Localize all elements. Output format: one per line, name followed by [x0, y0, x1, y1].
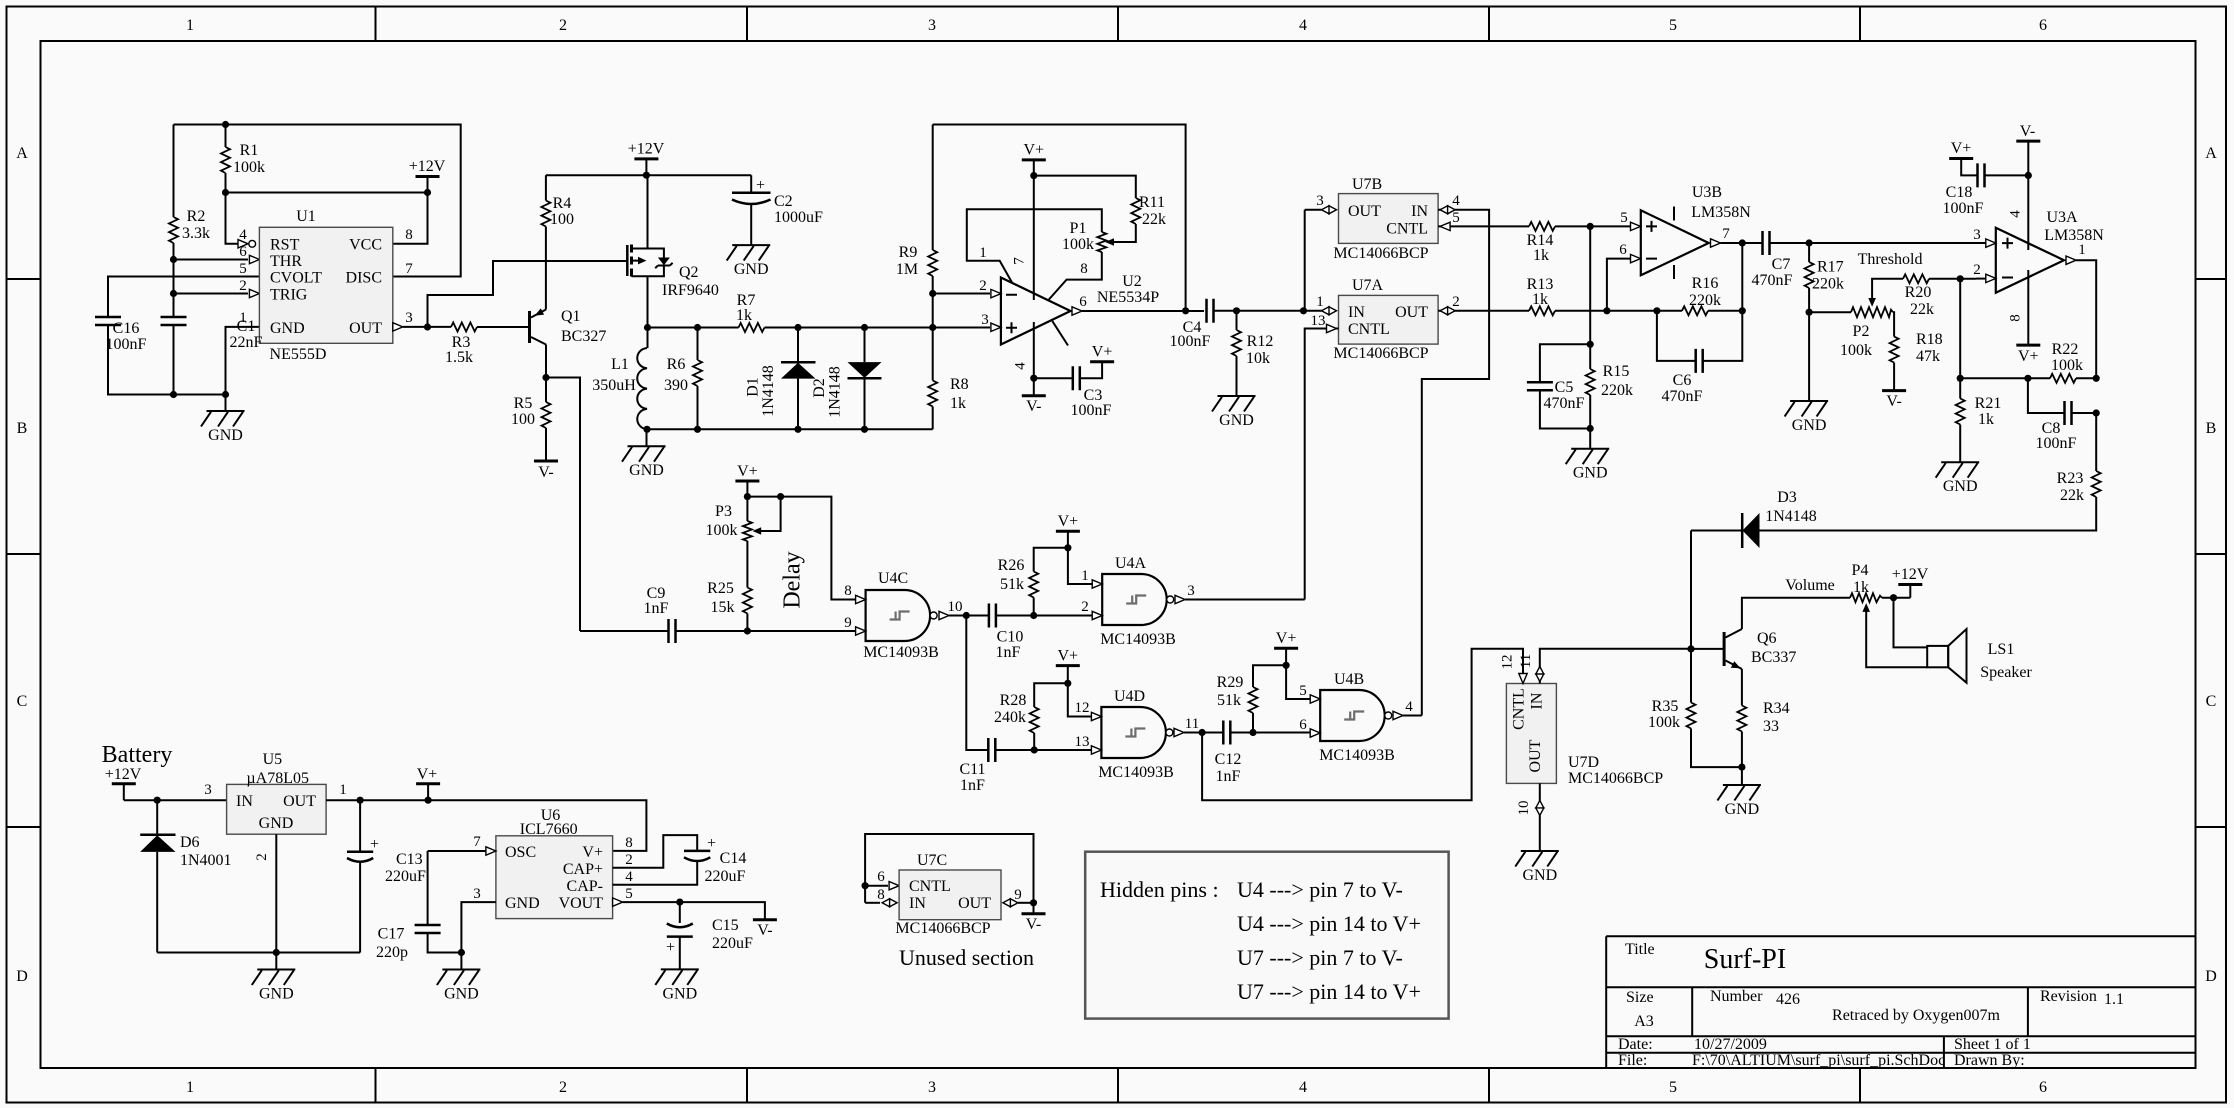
pin arrow U4D pin12	[1091, 712, 1101, 720]
svg-text:390: 390	[664, 377, 688, 394]
svg-text:Size: Size	[1626, 989, 1654, 1006]
svg-text:4: 4	[1013, 362, 1029, 370]
svg-text:2: 2	[625, 852, 633, 868]
svg-text:B: B	[2206, 420, 2217, 437]
svg-text:Threshold: Threshold	[1858, 251, 1923, 268]
svg-text:2: 2	[979, 278, 987, 294]
capacitor C18	[1961, 159, 1977, 176]
resistor R3	[451, 323, 477, 332]
node pin3 junction	[929, 324, 936, 331]
svg-text:ICL7660: ICL7660	[520, 821, 578, 838]
wire feedback top	[933, 125, 1186, 311]
svg-text:100k: 100k	[2051, 357, 2083, 374]
svg-text:1nF: 1nF	[960, 777, 985, 794]
svg-text:R5: R5	[514, 395, 533, 412]
svg-text:C13: C13	[396, 851, 423, 868]
svg-text:C15: C15	[712, 917, 739, 934]
pin arrows U7C pin9	[1003, 899, 1018, 907]
wire base to Q6	[1691, 648, 1724, 650]
svg-text:NE5534P: NE5534P	[1097, 289, 1159, 306]
resistor R11	[1131, 198, 1140, 224]
svg-text:5: 5	[239, 261, 247, 277]
svg-text:L1: L1	[611, 356, 629, 373]
svg-text:THR: THR	[270, 253, 302, 270]
wire U4D out	[1184, 732, 1223, 734]
svg-text:+12V: +12V	[628, 141, 665, 158]
node U6 gnd junction	[458, 949, 465, 956]
resistor R7	[739, 323, 765, 332]
wire RST pin 4	[226, 193, 239, 244]
svg-text:C11: C11	[959, 761, 985, 778]
resistor R26	[1029, 572, 1038, 598]
node R22 right junction	[2093, 375, 2100, 382]
node R25 bottom junction	[744, 627, 751, 634]
svg-text:220k: 220k	[1689, 292, 1721, 309]
node R17 bottom junction	[1806, 309, 1813, 316]
node L1 bottom junction	[643, 426, 650, 433]
row letters left	[16, 145, 28, 985]
wire pin2 line	[933, 293, 990, 295]
pin arrow U7B pin5	[1440, 222, 1450, 230]
node pin2 junction	[929, 290, 936, 297]
svg-text:5: 5	[1299, 683, 1307, 699]
capacitor C9	[580, 630, 669, 632]
wire pin8 to P1 bottom	[1048, 252, 1102, 301]
svg-text:R20: R20	[1905, 284, 1932, 301]
wire U7B out to node	[1304, 210, 1306, 311]
svg-text:VOUT: VOUT	[559, 895, 604, 912]
svg-text:V-: V-	[1026, 916, 1041, 933]
capacitor C12	[1223, 721, 1230, 745]
wire R17 to P2	[1809, 311, 1851, 313]
node rail junction	[643, 172, 650, 179]
resistor R28	[1030, 707, 1039, 733]
capacitor C5	[1540, 344, 1590, 382]
svg-text:DISC: DISC	[346, 270, 382, 287]
svg-text:MC14066BCP: MC14066BCP	[1568, 770, 1663, 787]
wire V+ to R11	[1034, 176, 1136, 198]
ruler ticks right	[2196, 279, 2227, 827]
ground GND (C15)	[655, 969, 699, 1002]
svg-text:3: 3	[1973, 227, 1981, 243]
svg-text:MC14066BCP: MC14066BCP	[1333, 245, 1428, 262]
pin arrow U3B pin6	[1631, 254, 1641, 262]
svg-text:2: 2	[1973, 262, 1981, 278]
svg-text:11: 11	[1185, 716, 1199, 732]
wire OUT up to Q2 gate	[428, 261, 628, 327]
op-amp U3B LM358N	[1641, 210, 1709, 275]
svg-text:OSC: OSC	[505, 844, 536, 861]
wire U7A pin13	[1305, 329, 1339, 600]
svg-text:V-: V-	[2020, 123, 2035, 140]
wire U5 out	[326, 800, 646, 851]
svg-text:OUT: OUT	[1348, 203, 1381, 220]
svg-text:100nF: 100nF	[1170, 333, 1211, 350]
node speaker junction	[1890, 594, 1897, 601]
svg-text:7: 7	[1722, 226, 1730, 242]
svg-text:U7B: U7B	[1352, 176, 1382, 193]
svg-text:C2: C2	[774, 193, 793, 210]
svg-text:V+: V+	[1058, 648, 1079, 665]
wire R2 top lead	[173, 125, 175, 218]
svg-text:470nF: 470nF	[1662, 388, 1703, 405]
op-amp U1 box NE555D	[259, 227, 392, 343]
capacitor C8	[2028, 378, 2065, 413]
svg-text:Date:: Date:	[1618, 1036, 1653, 1053]
power V+ (C18)	[1949, 158, 1973, 160]
svg-text:Q2: Q2	[679, 264, 699, 281]
svg-text:220k: 220k	[1601, 382, 1633, 399]
svg-text:1.1: 1.1	[2104, 991, 2124, 1008]
wire battery to U5	[124, 799, 227, 801]
svg-text:220k: 220k	[1812, 276, 1844, 293]
svg-text:MC14093B: MC14093B	[1319, 747, 1395, 764]
svg-text:1: 1	[239, 310, 247, 326]
svg-text:15k: 15k	[711, 599, 735, 616]
pin arrow U3A output	[2066, 256, 2076, 264]
row letters right	[2205, 145, 2217, 985]
svg-text:V-: V-	[538, 464, 553, 481]
node Q2 drain junction	[644, 324, 651, 331]
ground GND (R21)	[1936, 462, 1980, 495]
diode D2 1N4148	[864, 328, 866, 363]
svg-text:C5: C5	[1555, 379, 1574, 396]
wire OUT to R3	[403, 326, 451, 328]
pin arrow U6 pin7	[486, 847, 496, 855]
resistor R20	[1903, 274, 1929, 283]
capacitor C10	[989, 604, 996, 628]
wire rail to R4	[545, 175, 547, 200]
svg-text:6: 6	[1299, 717, 1307, 733]
resistor R23	[2095, 413, 2097, 471]
pin arrow U7A pin13	[1327, 324, 1337, 332]
svg-text:12: 12	[1500, 655, 1516, 670]
pin arrows U7B pin4	[1440, 206, 1455, 214]
resistor R18	[1890, 337, 1899, 363]
node R1 top junction	[222, 121, 229, 128]
svg-text:22k: 22k	[1910, 301, 1934, 318]
column numbers bottom	[186, 1079, 2047, 1096]
svg-text:MC14093B: MC14093B	[1100, 631, 1176, 648]
svg-text:5: 5	[1452, 210, 1460, 226]
power V+ (R28)	[1056, 665, 1080, 667]
svg-text:2: 2	[239, 278, 247, 294]
svg-text:9: 9	[1014, 887, 1022, 903]
node output junction	[1739, 239, 1746, 246]
svg-text:GND: GND	[270, 320, 305, 337]
capacitor C4	[1207, 299, 1214, 323]
note box hidden pins	[1085, 852, 1448, 1019]
wire U5 pin2	[275, 834, 277, 952]
svg-text:11: 11	[1518, 654, 1534, 668]
svg-text:CAP-: CAP-	[567, 878, 603, 895]
svg-text:V+: V+	[1951, 140, 1972, 157]
node V+ junction	[1283, 662, 1290, 669]
svg-text:1000uF: 1000uF	[774, 209, 823, 226]
pin arrow U3A pin2	[1986, 274, 1996, 282]
svg-text:Delay: Delay	[779, 551, 805, 608]
wire Q6 emitter to R34	[1741, 669, 1743, 706]
svg-text:U4A: U4A	[1115, 555, 1147, 572]
svg-text:LM358N: LM358N	[1691, 204, 1751, 221]
wire U7A pin2 line	[1438, 310, 1529, 312]
node R12 junction	[1233, 307, 1240, 314]
power V+ (U3A pin8)	[2016, 344, 2040, 346]
svg-text:V+: V+	[1092, 344, 1113, 361]
svg-text:CNTL: CNTL	[1511, 688, 1528, 730]
capacitor C15 electrolytic	[679, 902, 681, 923]
node THR junction	[170, 256, 177, 263]
pin 4 stub and V-	[1033, 322, 1035, 396]
node R14 bus junction	[1587, 223, 1594, 230]
wire output to R16	[1741, 243, 1743, 311]
node U4C out junction	[963, 612, 970, 619]
capacitor C2 electrolytic	[750, 175, 752, 193]
op-amp U3A LM358N	[1996, 228, 2064, 293]
svg-text:7: 7	[473, 834, 481, 850]
wire pin6 feedback	[1607, 259, 1630, 311]
svg-text:CVOLT: CVOLT	[270, 270, 322, 287]
svg-text:BC337: BC337	[1751, 649, 1796, 666]
node R28 bottom junction	[1031, 746, 1038, 753]
svg-text:R8: R8	[950, 376, 969, 393]
power V+ (R29)	[1274, 647, 1298, 649]
wire U7B pin4 to U4B output	[1422, 210, 1489, 716]
svg-text:Number: Number	[1710, 988, 1763, 1005]
svg-text:4: 4	[1299, 1079, 1307, 1096]
wire R14 bus down through R15 to ground	[1589, 226, 1591, 369]
svg-text:R17: R17	[1817, 259, 1844, 276]
svg-text:R25: R25	[707, 580, 734, 597]
svg-text:1N4001: 1N4001	[180, 852, 232, 869]
nand gate U4C MC14093B	[866, 590, 938, 641]
ground GND (L1)	[646, 429, 648, 446]
wire R4 to Q1 emitter	[545, 227, 547, 310]
svg-text:3: 3	[928, 1079, 936, 1096]
node V+ junction	[1064, 544, 1071, 551]
potentiometer P3	[743, 521, 752, 541]
node P3 top junction	[744, 493, 751, 500]
wire U7C loop	[865, 834, 1033, 914]
wire coil line	[648, 327, 739, 329]
svg-text:5: 5	[625, 886, 633, 902]
capacitor C6	[1657, 311, 1696, 361]
svg-text:TRIG: TRIG	[270, 287, 308, 304]
svg-text:1nF: 1nF	[1216, 768, 1241, 785]
node OUT branch junction	[424, 323, 431, 330]
svg-text:1: 1	[2078, 242, 2086, 258]
svg-text:4: 4	[1452, 193, 1460, 209]
resistor R4	[541, 201, 550, 227]
svg-text:Volume: Volume	[1785, 577, 1834, 594]
svg-text:6: 6	[1079, 294, 1087, 310]
transistor Q2 IRF9640	[626, 245, 629, 276]
svg-text:U7A: U7A	[1352, 277, 1384, 294]
svg-text:µA78L05: µA78L05	[246, 770, 309, 787]
svg-text:+: +	[707, 835, 716, 852]
wire feedback row	[1960, 377, 2050, 379]
ruler ticks left	[7, 279, 41, 827]
svg-text:1N4148: 1N4148	[1765, 508, 1817, 525]
node U4D out junction	[1199, 729, 1206, 736]
svg-text:GND: GND	[259, 815, 294, 832]
wire U6 pin7 OSC	[428, 850, 486, 852]
pin arrow U3A pin3	[1986, 239, 1996, 247]
node Q6 base junction	[1687, 645, 1694, 652]
svg-text:Unused section: Unused section	[899, 945, 1034, 970]
resistor R15	[1586, 369, 1595, 395]
svg-text:10k: 10k	[1246, 350, 1270, 367]
svg-text:U1: U1	[296, 208, 316, 225]
svg-text:1k: 1k	[1978, 411, 1994, 428]
wire C1 bottom	[173, 325, 175, 395]
svg-text:13: 13	[1311, 313, 1326, 329]
power V- (VOUT)	[753, 919, 777, 921]
svg-text:C14: C14	[720, 850, 747, 867]
svg-text:V+: V+	[1058, 513, 1079, 530]
svg-text:GND: GND	[505, 895, 540, 912]
pin arrows U7A pin2	[1440, 307, 1455, 315]
wire U3A output down	[2076, 260, 2096, 378]
ground GND (R17)	[1785, 401, 1829, 434]
svg-text:4: 4	[239, 227, 247, 243]
wire R17 to ground	[1808, 312, 1810, 401]
svg-text:33: 33	[1763, 718, 1779, 735]
node pin4 junction	[1030, 375, 1037, 382]
node V+ junction	[1030, 172, 1037, 179]
ground GND (C2)	[727, 245, 771, 278]
svg-text:350uH: 350uH	[592, 377, 636, 394]
ground GND (U6)	[460, 953, 462, 970]
node C13 junction	[357, 797, 364, 804]
svg-text:U2: U2	[1122, 273, 1142, 290]
svg-text:Revision: Revision	[2040, 988, 2097, 1005]
pin arrow U4B pin6	[1310, 729, 1320, 737]
wire U4A out to U7A pin13	[1185, 599, 1305, 601]
wire +12V rail	[546, 174, 751, 176]
svg-text:2: 2	[559, 1079, 567, 1096]
resistor R5	[545, 378, 547, 403]
resistor R1	[225, 125, 227, 148]
svg-text:R4: R4	[553, 195, 572, 212]
node V+ junction	[1064, 680, 1071, 687]
svg-text:V+: V+	[1276, 630, 1297, 647]
node collector junction	[542, 374, 549, 381]
pin arrow U3B pin5	[1631, 222, 1641, 230]
svg-text:+12V: +12V	[409, 158, 446, 175]
node +12V junction	[424, 189, 431, 196]
svg-text:B: B	[17, 420, 28, 437]
svg-text:1: 1	[186, 1079, 194, 1096]
node R15 bottom junction	[1587, 425, 1594, 432]
wire U3B output	[1711, 239, 1721, 247]
svg-text:R35: R35	[1652, 698, 1679, 715]
wire U7B pin5 CNTL line	[1438, 225, 1529, 227]
svg-text:1: 1	[1316, 294, 1324, 310]
wire pin2 node down	[1959, 279, 1961, 379]
switch U7D MC14066BCP	[1506, 684, 1556, 784]
node R6 bottom junction	[694, 426, 701, 433]
wire VCC pin 8	[393, 193, 428, 244]
svg-text:D3: D3	[1777, 489, 1797, 506]
svg-text:CNTL: CNTL	[909, 878, 951, 895]
resistor R2	[169, 217, 178, 243]
svg-text:8: 8	[844, 583, 852, 599]
svg-text:IN: IN	[1348, 304, 1365, 321]
node R16 right junction	[1739, 307, 1746, 314]
svg-text:1nF: 1nF	[644, 600, 669, 617]
svg-text:+12V: +12V	[105, 766, 142, 783]
svg-text:1M: 1M	[896, 261, 918, 278]
svg-text:V+: V+	[417, 766, 438, 783]
pin arrow U2 pin3	[991, 323, 1001, 331]
node ground bus junction	[222, 391, 229, 398]
wire collector to delay line	[546, 378, 580, 632]
svg-text:100nF: 100nF	[2036, 435, 2077, 452]
wire Q6 collector to P4	[1742, 598, 1850, 629]
svg-text:U3A: U3A	[2046, 209, 2078, 226]
svg-text:240k: 240k	[994, 709, 1026, 726]
wire R2 bottom to C1	[173, 243, 175, 317]
resistor R34	[1737, 706, 1746, 732]
pin arrow U2 output	[1072, 307, 1082, 315]
svg-text:CNTL: CNTL	[1348, 321, 1390, 338]
ground GND (R15/C5)	[1566, 449, 1610, 482]
capacitor C16	[95, 317, 121, 325]
diode D1 1N4148	[797, 328, 799, 363]
svg-text:1k: 1k	[1533, 247, 1549, 264]
pin arrows U7B pin3	[1322, 206, 1337, 214]
potentiometer P1	[1097, 232, 1106, 252]
node V+ junction	[425, 797, 432, 804]
power V+ (U2 pin7)	[1022, 159, 1046, 161]
node R1 bottom junction	[222, 189, 229, 196]
node C8 left junction	[2024, 375, 2031, 382]
power V- (U7C)	[1022, 913, 1046, 915]
svg-text:IN: IN	[1411, 203, 1428, 220]
svg-text:D: D	[2205, 968, 2217, 985]
svg-text:9: 9	[844, 615, 852, 631]
svg-text:1.5k: 1.5k	[445, 349, 473, 366]
svg-text:A: A	[16, 145, 28, 162]
capacitor C1	[161, 317, 187, 325]
node U3B pin6 junction	[1603, 307, 1610, 314]
pin arrow U4C pin8	[856, 595, 866, 603]
node U5 gnd junction	[273, 949, 280, 956]
power V+ (P3)	[735, 480, 759, 482]
svg-text:6: 6	[2039, 1079, 2047, 1096]
svg-text:100: 100	[511, 411, 535, 428]
svg-text:D1: D1	[745, 377, 762, 397]
svg-text:1: 1	[339, 782, 347, 798]
svg-text:8: 8	[2008, 314, 2024, 322]
svg-text:22k: 22k	[2060, 487, 2084, 504]
svg-text:+: +	[756, 177, 765, 194]
svg-text:7: 7	[1012, 257, 1028, 265]
svg-text:8: 8	[625, 835, 633, 851]
svg-text:C12: C12	[1215, 751, 1242, 768]
svg-text:C: C	[17, 693, 28, 710]
wire Q1 collector	[545, 345, 547, 378]
capacitor C3	[1034, 377, 1073, 379]
switch U7B MC14066BCP	[1339, 194, 1439, 244]
node C5 branch junction	[1587, 341, 1594, 348]
svg-text:U4B: U4B	[1334, 671, 1364, 688]
node D1 bottom junction	[794, 426, 801, 433]
node R21/R22 left junction	[1957, 375, 1964, 382]
svg-text:OUT: OUT	[349, 320, 382, 337]
resistor R29	[1249, 687, 1258, 713]
